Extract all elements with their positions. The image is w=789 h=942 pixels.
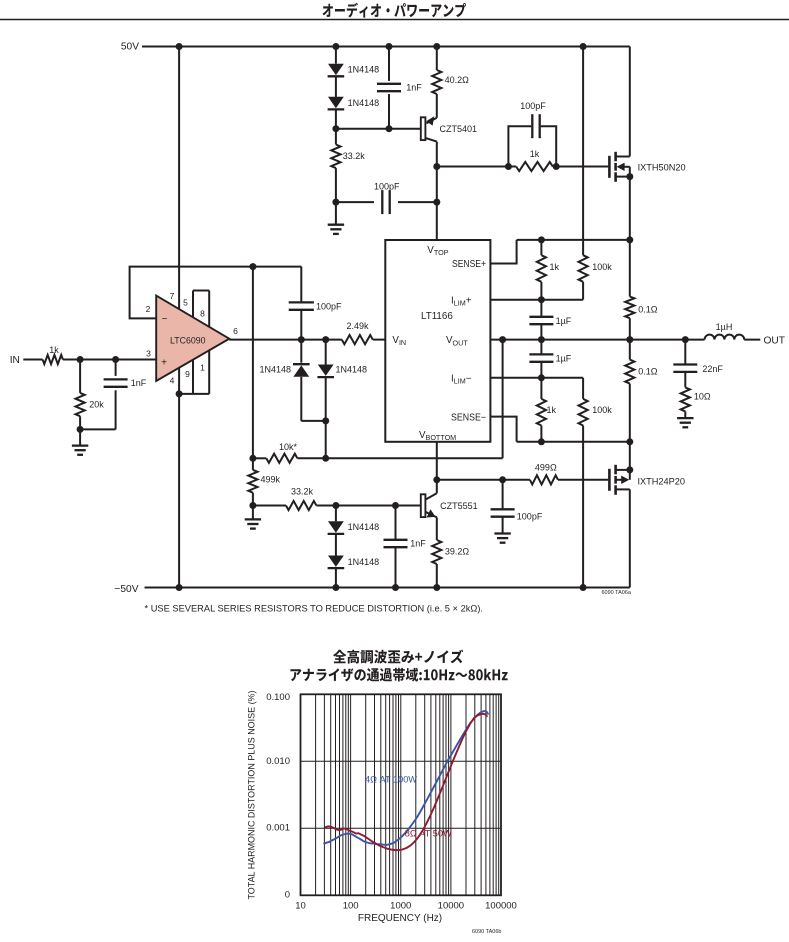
svg-text:1µF: 1µF [556, 316, 572, 326]
svg-text:5: 5 [183, 297, 188, 307]
svg-text:1N4148: 1N4148 [348, 522, 380, 532]
svg-text:7: 7 [170, 291, 175, 301]
svg-text:1N4148: 1N4148 [348, 98, 380, 108]
svg-text:100000: 100000 [485, 901, 517, 912]
svg-text:10: 10 [295, 901, 306, 912]
svg-text:1N4148: 1N4148 [336, 365, 368, 375]
svg-text:1nF: 1nF [131, 378, 147, 388]
svg-text:33.2k: 33.2k [291, 486, 314, 496]
svg-text:TOTAL HARMONIC DISTORTION PLUS: TOTAL HARMONIC DISTORTION PLUS NOISE (%) [247, 691, 258, 900]
svg-text:LT1166: LT1166 [421, 311, 453, 322]
svg-text:10Ω: 10Ω [694, 392, 711, 402]
svg-text:1µH: 1µH [716, 322, 733, 332]
svg-text:CZT5551: CZT5551 [440, 501, 478, 511]
svg-text:−50V: −50V [114, 584, 138, 595]
svg-text:100k: 100k [592, 262, 612, 272]
svg-text:1: 1 [200, 362, 205, 372]
svg-text:39.2Ω: 39.2Ω [445, 546, 470, 556]
svg-text:SENSE+: SENSE+ [452, 259, 486, 270]
svg-text:* USE SEVERAL SERIES RESISTORS: * USE SEVERAL SERIES RESISTORS TO REDUCE… [145, 604, 484, 614]
svg-text:0.1Ω: 0.1Ω [638, 304, 658, 314]
svg-text:−: − [162, 314, 168, 325]
svg-text:1k: 1k [49, 345, 59, 355]
svg-text:OUT: OUT [764, 335, 786, 346]
svg-text:10k*: 10k* [279, 442, 298, 452]
svg-text:2: 2 [146, 304, 151, 314]
svg-text:100pF: 100pF [374, 182, 400, 192]
svg-text:499Ω: 499Ω [535, 463, 557, 473]
svg-text:100pF: 100pF [316, 302, 342, 312]
svg-text:0.001: 0.001 [266, 823, 290, 834]
svg-text:100k: 100k [592, 405, 612, 415]
svg-text:SENSE−: SENSE− [451, 412, 486, 423]
svg-text:499k: 499k [261, 474, 281, 484]
svg-text:50V: 50V [121, 42, 139, 53]
svg-text:IXTH24P20: IXTH24P20 [638, 476, 686, 486]
svg-text:IXTH50N20: IXTH50N20 [638, 162, 686, 172]
svg-text:100pF: 100pF [520, 101, 546, 111]
svg-text:1k: 1k [530, 149, 540, 159]
svg-text:1N4148: 1N4148 [348, 64, 380, 74]
svg-text:IN: IN [10, 355, 20, 366]
svg-text:0.100: 0.100 [266, 692, 290, 703]
svg-text:1N4148: 1N4148 [348, 557, 380, 567]
svg-text:40.2Ω: 40.2Ω [445, 75, 470, 85]
svg-text:22nF: 22nF [702, 364, 723, 374]
svg-text:8: 8 [200, 308, 205, 318]
svg-text:33.2k: 33.2k [343, 151, 366, 161]
svg-text:4Ω AT 100W: 4Ω AT 100W [365, 775, 417, 785]
svg-text:1N4148: 1N4148 [259, 365, 291, 375]
svg-text:LTC6090: LTC6090 [170, 336, 206, 346]
svg-text:1000: 1000 [390, 901, 411, 912]
svg-text:6090 TA06b: 6090 TA06b [472, 929, 501, 935]
svg-text:CZT5401: CZT5401 [440, 124, 478, 134]
svg-text:1µF: 1µF [556, 353, 572, 363]
svg-text:100pF: 100pF [517, 511, 543, 521]
svg-text:1nF: 1nF [406, 82, 422, 92]
svg-text:0.1Ω: 0.1Ω [638, 367, 658, 377]
svg-text:0.010: 0.010 [266, 756, 290, 767]
svg-text:1k: 1k [547, 405, 557, 415]
svg-text:3: 3 [146, 348, 151, 358]
svg-text:20k: 20k [89, 400, 104, 410]
svg-text:9: 9 [185, 369, 190, 379]
svg-text:4: 4 [170, 375, 175, 385]
svg-text:1nF: 1nF [410, 539, 426, 549]
svg-text:2.49k: 2.49k [346, 321, 369, 331]
svg-text:FREQUENCY (Hz): FREQUENCY (Hz) [358, 913, 442, 924]
svg-text:100: 100 [343, 901, 359, 912]
svg-text:6: 6 [233, 326, 238, 336]
svg-text:10000: 10000 [438, 901, 464, 912]
svg-text:1k: 1k [550, 262, 560, 272]
svg-text:0: 0 [285, 890, 290, 901]
svg-text:+: + [161, 357, 167, 368]
svg-text:6090 TA06a: 6090 TA06a [602, 590, 632, 596]
svg-text:8Ω AT 50W: 8Ω AT 50W [405, 828, 452, 838]
